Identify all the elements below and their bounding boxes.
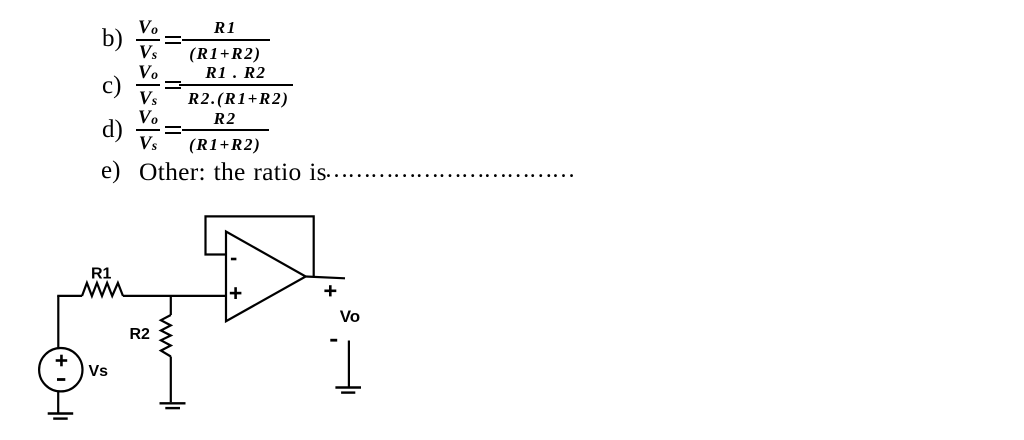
minus label (output) [330, 339, 337, 342]
wire: source to R1 [57, 295, 82, 297]
fraction R1/(R1+R2) (b) [190, 19, 262, 62]
svg-text:R2: R2 [130, 326, 151, 343]
svg-text:R1: R1 [91, 266, 112, 283]
wire: output ground stem [348, 341, 350, 388]
wire: node to R2 [170, 296, 172, 315]
fraction R1.R2/R2.(R1+R2) (c) [190, 64, 288, 107]
plus label (output) [324, 285, 336, 296]
fraction Vo/Vs (d) [136, 107, 160, 152]
equals (b) [165, 36, 181, 44]
wire: R1 to op-amp + input [123, 295, 226, 297]
op-amp plus label [230, 287, 242, 299]
fraction R2/(R1+R2) (d) [190, 110, 262, 153]
source minus label [57, 378, 65, 381]
resistor R2 [161, 315, 171, 357]
equals (c) [165, 81, 181, 89]
op-amp U1 [226, 232, 306, 322]
option e text [139, 159, 327, 185]
fraction Vo/Vs (c) [136, 62, 160, 107]
wire: feedback loop [206, 216, 314, 276]
svg-text:Vs: Vs [89, 363, 109, 380]
wire: R2 to ground [170, 357, 172, 403]
ground (R2) [160, 403, 186, 408]
resistor R1 [82, 283, 123, 296]
dotted line [325, 158, 575, 182]
svg-text:Vo: Vo [340, 307, 360, 326]
wire: op-amp output [306, 277, 345, 279]
ground (output) [335, 388, 361, 393]
option d label [102, 117, 123, 142]
option c label [102, 73, 121, 98]
wire: source to ground [57, 391, 59, 413]
source Vs [39, 348, 82, 391]
option b label [102, 26, 123, 51]
wire: source top vertical [57, 296, 59, 348]
equals (d) [165, 126, 181, 134]
ground (source) [48, 414, 73, 419]
source plus label [56, 355, 67, 367]
option e label [101, 158, 120, 183]
op-amp minus label [231, 258, 237, 261]
fraction Vo/Vs (b) [136, 17, 160, 62]
